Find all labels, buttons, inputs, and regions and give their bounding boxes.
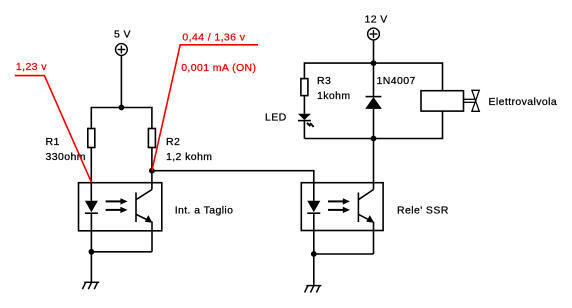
- svg-text:R1: R1: [46, 136, 60, 148]
- wire valve to bottom rail: [442, 111, 444, 139]
- power supply 12V label: [365, 14, 388, 26]
- svg-text:1,2 kohm: 1,2 kohm: [166, 151, 212, 163]
- junction dot 12V rail: [371, 60, 377, 66]
- solenoid coil Elettrovalvola: [421, 91, 464, 111]
- svg-text:Elettrovalvola: Elettrovalvola: [489, 96, 558, 108]
- wire rail to valve: [442, 62, 444, 90]
- svg-text:Rele' SSR: Rele' SSR: [397, 204, 449, 216]
- label R1 value: [46, 136, 86, 163]
- power supply 5V symbol: [116, 44, 128, 56]
- annotation pointer line left: [15, 76, 92, 183]
- label Elettrovalvola: [489, 96, 558, 108]
- wire right branch to R2: [151, 107, 153, 129]
- power supply 5V label: [114, 29, 131, 41]
- resistor R1: [88, 129, 95, 148]
- svg-text:1kohm: 1kohm: [317, 90, 351, 102]
- wire 5V to rail: [120, 55, 122, 107]
- wire top rail right circuit: [304, 62, 442, 64]
- opto1 LED diode: [85, 201, 98, 252]
- svg-text:1N4007: 1N4007: [377, 75, 416, 87]
- svg-text:R3: R3: [317, 75, 331, 87]
- label Int. a Taglio: [175, 204, 234, 216]
- wire to ground left: [90, 252, 92, 282]
- wire opto2 emitter down: [373, 222, 375, 255]
- annotation pointer line right: [152, 45, 258, 171]
- wire 12V to rail: [373, 40, 375, 63]
- label Rele' SSR: [397, 204, 449, 216]
- resistor R2: [148, 129, 155, 148]
- ground symbol left: [82, 282, 99, 289]
- wire opto1 bottom: [91, 251, 152, 253]
- wire R3 to LED: [303, 96, 305, 114]
- wire LED to bottom rail: [303, 121, 305, 139]
- opto1 phototransistor: [136, 190, 153, 223]
- wire bottom rail right circuit: [304, 138, 442, 140]
- svg-text:12 V: 12 V: [365, 14, 388, 26]
- wire rail to R3: [303, 62, 305, 78]
- wire top rail: [91, 107, 152, 109]
- wire rail to diode cathode: [373, 63, 375, 97]
- junction dot bottom rail: [371, 136, 377, 142]
- opto2 LED diode: [307, 201, 320, 254]
- junction dot ground node right: [311, 251, 317, 257]
- annotation 0,44 / 1,36 v: [182, 32, 245, 44]
- junction dot top rail: [119, 105, 125, 111]
- svg-text:0,001 mA (ON): 0,001 mA (ON): [181, 62, 256, 74]
- optocoupler U2 box: [301, 183, 383, 231]
- wire opto1 emitter down: [151, 222, 153, 252]
- svg-text:0,44 / 1,36 v: 0,44 / 1,36 v: [182, 32, 245, 44]
- svg-text:1,23 v: 1,23 v: [16, 61, 47, 73]
- valve stem: [464, 99, 475, 102]
- label R3 value: [317, 75, 351, 102]
- wire to ground right: [313, 254, 315, 286]
- opto1 light arrows: [106, 198, 128, 213]
- wire R2 to node: [151, 148, 153, 171]
- svg-text:5 V: 5 V: [114, 29, 131, 41]
- junction dot ground node left: [89, 249, 95, 255]
- LED emission arrows: [307, 123, 314, 127]
- wire diode anode to bottom rail: [373, 109, 375, 139]
- diode 1N4007: [365, 97, 382, 109]
- label R2 value: [166, 136, 212, 163]
- annotation 0,001 mA (ON): [181, 62, 256, 74]
- label LED: [265, 112, 287, 124]
- optocoupler U1 box: [79, 183, 162, 231]
- annotation 1,23 v: [16, 61, 47, 73]
- wire node to opto1 collector: [151, 171, 153, 190]
- valve bowtie: [472, 90, 479, 111]
- wire R1 to opto LED anode: [90, 148, 92, 201]
- resistor R3: [301, 79, 308, 96]
- svg-text:R2: R2: [166, 136, 180, 148]
- wire node to opto2 LED: [152, 171, 314, 201]
- ground symbol right: [305, 286, 322, 293]
- wire opto2 bottom: [314, 253, 374, 255]
- opto2 light arrows: [328, 198, 350, 213]
- wire left branch to R1: [90, 107, 92, 129]
- svg-text:Int. a Taglio: Int. a Taglio: [175, 204, 234, 216]
- label 1N4007: [377, 75, 416, 87]
- power supply 12V symbol: [368, 28, 380, 40]
- svg-text:LED: LED: [265, 112, 287, 124]
- wire rail to opto2 collector: [373, 139, 375, 190]
- junction dot node R2/collector: [149, 168, 155, 174]
- LED D1: [298, 114, 311, 121]
- opto2 phototransistor: [358, 190, 374, 223]
